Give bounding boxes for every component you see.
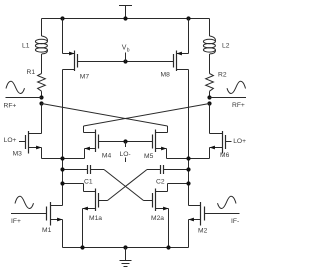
wire M1a drain to left column: [63, 184, 96, 192]
node RF+ left (tank/output): [39, 95, 43, 99]
svg-text:M7: M7: [80, 73, 90, 80]
svg-text:M1: M1: [42, 227, 52, 234]
wire M2a source to ground: [156, 207, 169, 248]
inductor L1: [22, 19, 47, 74]
svg-text:M1a: M1a: [89, 215, 102, 222]
node LO-: [123, 139, 127, 143]
wire M6 drain to right tank column: [210, 104, 223, 134]
node Vb: [123, 59, 127, 63]
wire ground rail: [63, 247, 189, 249]
source sine IF+: [15, 196, 34, 208]
wire M1a source to ground: [83, 207, 96, 248]
transistor M4 (LO switch): [96, 130, 112, 160]
svg-text:M3: M3: [13, 150, 23, 157]
wire RF+ right port: [210, 97, 247, 99]
label LO- with stubs: [120, 142, 131, 163]
svg-text:RF+: RF+: [232, 102, 245, 109]
node rail-M8 junction: [186, 16, 190, 20]
transistor M2 (IF input): [198, 202, 208, 234]
resistor R1: [27, 69, 46, 98]
wire M3 drain to left tank column: [29, 104, 42, 134]
svg-text:LO-: LO-: [120, 151, 131, 158]
power supply VDD: [119, 6, 132, 19]
wire M6 source to common node: [210, 146, 223, 159]
svg-text:M2: M2: [198, 227, 208, 234]
wire IF+ gate line: [11, 213, 47, 215]
svg-text:R1: R1: [27, 69, 36, 76]
svg-text:M2a: M2a: [151, 215, 164, 222]
wire M1 drain to left column: [51, 205, 63, 207]
svg-text:M5: M5: [144, 153, 154, 160]
node M2a drain junction: [186, 181, 190, 185]
node M2a source on rail: [166, 245, 170, 249]
svg-text:b: b: [127, 48, 130, 54]
node quad source right: [186, 156, 190, 160]
transistor M6 (LO switch): [220, 131, 232, 159]
label Vb with stub: [122, 45, 130, 62]
node rail-VDD junction: [123, 16, 127, 20]
wire LO- gate line M4-M5: [99, 141, 153, 143]
wire M7 drain down (left column): [63, 70, 75, 206]
svg-text:C1: C1: [84, 178, 93, 185]
transistor M1a (cross pair): [89, 189, 108, 223]
wire Vb gate line M7-M8: [78, 61, 174, 63]
wire M8 drain down (right column): [177, 70, 189, 206]
wire M5 drain elbow to diagonal: [156, 126, 168, 133]
svg-text:RF+: RF+: [4, 103, 17, 110]
node ground stub on rail: [123, 245, 127, 249]
wire M4 drain elbow to diagonal: [84, 126, 96, 133]
svg-text:LO+: LO+: [4, 137, 17, 144]
node C2 feed: [186, 167, 190, 171]
capacitor C1: [63, 165, 105, 185]
svg-text:LO+: LO+: [233, 138, 246, 145]
wire M7 source to rail: [63, 19, 75, 56]
node M1a source on rail: [80, 245, 84, 249]
transistor M8 (PMOS bleed, right): [161, 51, 177, 79]
transistor M7 (PMOS bleed, left): [75, 51, 90, 81]
ground: [120, 248, 132, 267]
svg-text:IF+: IF+: [11, 218, 21, 225]
wire M4 source to common node: [85, 147, 96, 159]
wire M5 source to common node: [156, 147, 210, 159]
transistor M5 (LO switch): [144, 130, 156, 160]
source sine IF-: [218, 196, 237, 208]
svg-text:R2: R2: [218, 72, 227, 79]
inductor L2: [203, 19, 229, 74]
svg-text:C2: C2: [156, 178, 165, 185]
wire coupling diagonal C2 to M1a gate: [108, 170, 148, 201]
wire coupling diagonal C1 to M2a gate: [104, 170, 144, 201]
wire top supply rail: [42, 18, 210, 20]
wire cross-couple diagonal right tank to M4 drain: [84, 104, 210, 127]
wire M2 source to ground: [189, 218, 201, 248]
resistor R2: [206, 72, 227, 98]
svg-text:M6: M6: [220, 152, 230, 159]
wire M3 source to common node: [29, 146, 85, 159]
transistor M3 (LO switch): [13, 131, 29, 157]
wire cross-couple diagonal left tank to M5 drain: [42, 104, 168, 127]
svg-text:L1: L1: [22, 43, 30, 50]
svg-text:L2: L2: [222, 43, 230, 50]
transistor M2a (cross pair): [144, 189, 165, 223]
node rail-M7 junction: [60, 16, 64, 20]
node quad source left: [60, 156, 64, 160]
source sine RF+ left: [6, 81, 25, 93]
node C1 feed: [60, 167, 64, 171]
node RF+ right lower (cross-couple tap): [207, 101, 211, 105]
transistor M1 (IF input): [42, 202, 52, 234]
capacitor C2: [147, 165, 189, 185]
svg-text:IF-: IF-: [231, 218, 239, 225]
source sine RF+ right: [227, 81, 246, 93]
wire IF- gate line: [205, 213, 240, 215]
node RF+ left lower (cross-couple tap): [39, 101, 43, 105]
wire M2 drain to right column: [189, 205, 201, 207]
node M1a drain junction: [60, 181, 64, 185]
wire RF+ left port: [6, 97, 42, 99]
wire M1 source to ground: [51, 218, 63, 248]
svg-text:M8: M8: [161, 72, 171, 79]
node RF+ right (tank/output): [207, 95, 211, 99]
wire M8 source to rail: [177, 19, 189, 56]
wire M2a drain to right column: [156, 184, 189, 192]
svg-text:M4: M4: [102, 152, 112, 159]
